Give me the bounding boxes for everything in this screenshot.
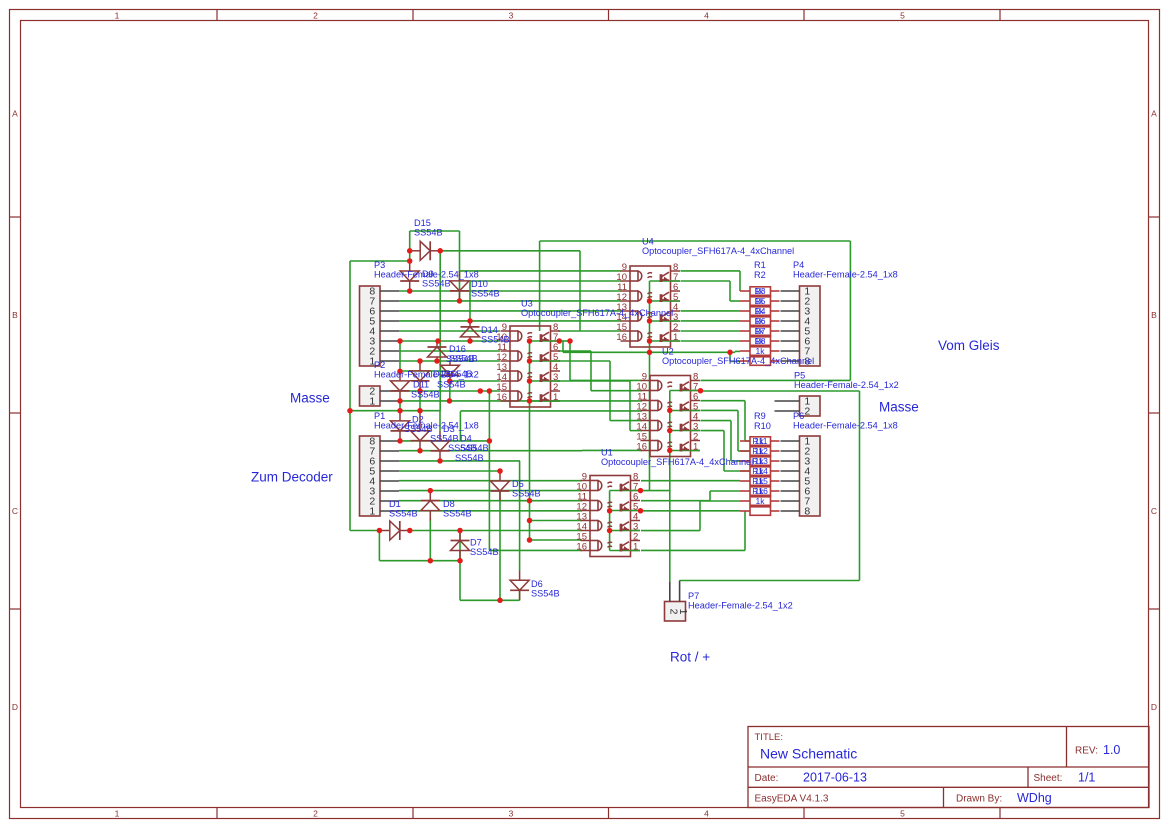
svg-text:REV:: REV: [1075,746,1098,757]
svg-text:D9: D9 [422,269,434,279]
svg-text:SS54B: SS54B [414,228,443,238]
svg-text:U1: U1 [601,448,613,458]
svg-text:5: 5 [900,11,905,21]
svg-text:Header-Female-2.54_1x2: Header-Female-2.54_1x2 [374,370,479,380]
svg-text:SS54B: SS54B [411,390,440,400]
svg-text:1: 1 [369,396,375,408]
svg-text:1k: 1k [755,326,765,336]
svg-text:SS54B: SS54B [389,509,418,519]
svg-text:2017-06-13: 2017-06-13 [803,771,867,785]
svg-text:D14: D14 [481,325,498,335]
svg-text:D6: D6 [531,579,543,589]
svg-text:P2: P2 [374,360,385,370]
svg-text:16: 16 [576,542,587,553]
svg-text:SS54B: SS54B [455,453,484,463]
svg-text:1k: 1k [755,486,765,496]
svg-text:1.0: 1.0 [1103,743,1120,757]
svg-text:D3: D3 [443,424,455,434]
svg-text:Header-Female-2.54_1x2: Header-Female-2.54_1x2 [688,601,793,611]
svg-text:R2: R2 [754,270,766,280]
svg-text:D15: D15 [414,218,431,228]
svg-text:1k: 1k [755,296,765,306]
svg-text:1: 1 [369,506,375,518]
svg-text:D1: D1 [389,499,401,509]
svg-text:1k: 1k [755,336,765,346]
svg-text:SS54B: SS54B [471,289,500,299]
svg-text:R10: R10 [754,421,771,431]
svg-text:SS54B: SS54B [437,380,466,390]
svg-text:Masse: Masse [879,400,919,415]
svg-text:TITLE:: TITLE: [755,732,784,743]
svg-text:1: 1 [115,809,120,819]
svg-text:Date:: Date: [755,773,779,784]
svg-text:Drawn By:: Drawn By: [956,794,1002,805]
svg-text:U2: U2 [662,347,674,357]
svg-text:Vom Gleis: Vom Gleis [938,338,1000,353]
svg-text:1k: 1k [755,306,765,316]
svg-text:Header-Female-2.54_1x2: Header-Female-2.54_1x2 [794,380,899,390]
svg-text:1k: 1k [755,466,765,476]
svg-text:1k: 1k [755,476,765,486]
svg-text:1k: 1k [755,286,765,296]
svg-text:P1: P1 [374,411,385,421]
svg-text:2: 2 [804,406,810,418]
svg-text:16: 16 [616,332,627,343]
svg-text:Optocoupler_SFH617A-4_4xChanne: Optocoupler_SFH617A-4_4xChannel [642,246,794,256]
svg-text:16: 16 [496,392,507,403]
svg-text:1k: 1k [755,446,765,456]
svg-text:D8: D8 [443,499,455,509]
svg-text:D: D [12,702,18,712]
svg-text:P4: P4 [793,260,804,270]
svg-text:SS54B: SS54B [422,279,451,289]
svg-text:Sheet:: Sheet: [1034,773,1063,784]
svg-text:New Schematic: New Schematic [760,746,857,762]
svg-text:1/1: 1/1 [1078,771,1095,785]
svg-text:B: B [1151,310,1157,320]
svg-text:1k: 1k [756,496,766,506]
svg-text:D16: D16 [449,344,466,354]
svg-text:P5: P5 [794,371,805,381]
svg-text:B: B [12,310,18,320]
svg-text:P7: P7 [688,591,699,601]
svg-text:1: 1 [115,11,120,21]
svg-text:D11: D11 [413,380,429,390]
svg-text:U3: U3 [521,299,533,309]
svg-text:D5: D5 [512,479,524,489]
svg-text:SS54B: SS54B [481,335,510,345]
svg-text:1k: 1k [755,316,765,326]
svg-text:Header-Female-2.54_1x8: Header-Female-2.54_1x8 [793,270,898,280]
svg-text:A: A [12,109,18,119]
svg-text:Optocoupler_SFH617A-4_4xChanne: Optocoupler_SFH617A-4_4xChannel [521,308,673,318]
svg-text:SS54B: SS54B [531,589,560,599]
svg-text:3: 3 [509,11,514,21]
svg-text:R9: R9 [754,411,766,421]
svg-text:SS54B: SS54B [430,434,459,444]
svg-text:D: D [1151,702,1157,712]
svg-text:C: C [1151,506,1157,516]
svg-text:8: 8 [804,506,810,518]
svg-text:2: 2 [313,11,318,21]
svg-text:5: 5 [900,809,905,819]
svg-text:Header-Female-2.54_1x8: Header-Female-2.54_1x8 [793,421,898,431]
svg-text:A: A [1151,109,1157,119]
svg-text:2: 2 [313,809,318,819]
svg-text:SS54B: SS54B [470,547,499,557]
svg-text:4: 4 [704,11,709,21]
svg-text:P3: P3 [374,260,385,270]
svg-text:P6: P6 [793,411,804,421]
svg-text:1k: 1k [756,346,766,356]
svg-text:1k: 1k [755,436,765,446]
svg-text:D2: D2 [412,415,424,425]
svg-text:Optocoupler_SFH617A-4_4xChanne: Optocoupler_SFH617A-4_4xChannel [601,457,753,467]
svg-text:4: 4 [704,809,709,819]
svg-text:SS54B: SS54B [443,509,472,519]
svg-text:Masse: Masse [290,391,330,406]
svg-text:R1: R1 [754,260,766,270]
svg-text:Rot / +: Rot / + [670,650,710,665]
svg-text:WDhg: WDhg [1017,791,1052,805]
svg-text:C: C [12,506,18,516]
svg-text:SS54B: SS54B [404,424,433,434]
svg-text:3: 3 [509,809,514,819]
svg-text:SS54B: SS54B [512,489,541,499]
svg-text:SS54B: SS54B [460,443,489,453]
svg-text:U4: U4 [642,237,654,247]
svg-text:D7: D7 [470,538,482,548]
svg-text:SS54B: SS54B [446,354,475,364]
svg-text:Optocoupler_SFH617A-4_4xChanne: Optocoupler_SFH617A-4_4xChannel [662,356,814,366]
svg-text:EasyEDA V4.1.3: EasyEDA V4.1.3 [755,794,829,805]
svg-text:Zum Decoder: Zum Decoder [251,470,333,485]
svg-text:D10: D10 [471,279,488,289]
svg-text:16: 16 [636,442,647,453]
svg-text:1k: 1k [755,456,765,466]
svg-text:D4: D4 [460,434,472,444]
